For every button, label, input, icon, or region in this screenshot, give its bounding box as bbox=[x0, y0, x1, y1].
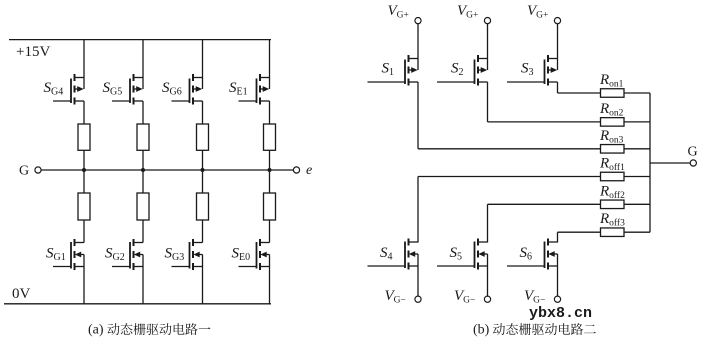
transistor SE0 bbox=[260, 242, 270, 244]
svg-text:S4: S4 bbox=[380, 245, 393, 263]
svg-text:SE1: SE1 bbox=[229, 80, 248, 98]
wire S5 drain bbox=[487, 204, 489, 242]
resistor lower col 3 bbox=[197, 193, 209, 220]
svg-text:e: e bbox=[306, 163, 312, 178]
svg-text:G: G bbox=[688, 145, 698, 160]
svg-text:Roff1: Roff1 bbox=[599, 156, 625, 174]
svg-text:SG6: SG6 bbox=[162, 80, 182, 98]
resistor upper col 3 bbox=[197, 124, 209, 150]
wire S4 drain bbox=[417, 177, 419, 243]
wire G line bbox=[41, 169, 293, 171]
svg-text:VG−: VG− bbox=[524, 288, 545, 306]
transistor SG6 bbox=[193, 77, 203, 79]
wire resistor to G-line col 1 bbox=[83, 150, 85, 193]
wire Roff1 to bus bbox=[624, 176, 650, 178]
node junction col 2 bbox=[141, 168, 145, 172]
terminal VG+ 1 bbox=[415, 18, 421, 24]
wire bus to G bbox=[650, 162, 690, 164]
terminal G bbox=[35, 167, 41, 173]
wire Roff2 to bus bbox=[624, 203, 650, 205]
wire source to resistor col 2 bbox=[142, 101, 144, 124]
wire Ron3 to bus bbox=[624, 148, 650, 150]
wire resistor to G-line col 2 bbox=[142, 150, 144, 193]
wire S5 source bbox=[487, 254, 489, 296]
transistor S3 bbox=[548, 58, 558, 60]
svg-text:Ron1: Ron1 bbox=[599, 72, 624, 90]
wire drain column 3 top bbox=[202, 40, 204, 89]
resistor Roff1 bbox=[601, 172, 625, 181]
wire S3 source bbox=[557, 82, 559, 93]
wire resistor to drain col 2 bbox=[142, 220, 144, 243]
transistor SE1 bbox=[260, 77, 270, 79]
svg-text:(a): (a) bbox=[88, 323, 104, 338]
resistor Ron2 bbox=[601, 118, 625, 127]
svg-text:SG2: SG2 bbox=[105, 246, 125, 264]
node junction col 3 bbox=[201, 168, 205, 172]
terminal e bbox=[293, 167, 299, 173]
wire VG+ to S1 bbox=[417, 24, 419, 70]
wire S4 source bbox=[417, 254, 419, 296]
wire resistor to G-line col 3 bbox=[202, 150, 204, 193]
transistor SG5 bbox=[134, 77, 144, 79]
wire source to resistor col 3 bbox=[202, 101, 204, 124]
svg-text:Roff2: Roff2 bbox=[599, 183, 625, 201]
svg-text:(b): (b) bbox=[473, 323, 490, 338]
wire Roff3 to bus bbox=[624, 231, 650, 233]
resistor Roff3 bbox=[601, 228, 625, 237]
wire drain column 2 top bbox=[142, 40, 144, 89]
wire S2 source bbox=[487, 82, 489, 122]
resistor Ron1 bbox=[601, 89, 625, 98]
svg-text:VG+: VG+ bbox=[457, 3, 478, 21]
transistor SG1 bbox=[75, 242, 85, 244]
wire resistor to drain col 3 bbox=[202, 220, 204, 243]
resistor lower col 2 bbox=[137, 193, 149, 220]
resistor Ron3 bbox=[601, 145, 625, 154]
wire +15V rail bbox=[9, 39, 271, 41]
svg-text:S5: S5 bbox=[450, 245, 463, 263]
wire Ron1 to bus bbox=[624, 92, 650, 94]
node junction col 1 bbox=[82, 168, 86, 172]
node junction col 4 bbox=[268, 168, 272, 172]
transistor S5 bbox=[478, 241, 488, 243]
svg-text:SG5: SG5 bbox=[103, 80, 123, 98]
svg-text:SG4: SG4 bbox=[44, 80, 64, 98]
svg-text:SG1: SG1 bbox=[46, 246, 66, 264]
svg-text:G: G bbox=[19, 164, 29, 179]
svg-text:Roff3: Roff3 bbox=[599, 211, 625, 229]
wire source to 0V col 1 bbox=[83, 255, 85, 305]
transistor S6 bbox=[548, 241, 558, 243]
transistor SG3 bbox=[193, 242, 203, 244]
resistor upper col 2 bbox=[137, 124, 149, 150]
terminal VG+ 2 bbox=[484, 18, 490, 24]
svg-text:+15V: +15V bbox=[16, 44, 50, 60]
resistor lower col 4 bbox=[264, 193, 276, 220]
wire S1 source bbox=[417, 82, 419, 149]
terminal VG- 1 bbox=[415, 296, 421, 302]
svg-text:ybx8.cn: ybx8.cn bbox=[529, 305, 592, 322]
wire VG+ to S3 bbox=[557, 24, 559, 70]
wire drain column 4 top bbox=[269, 40, 271, 89]
terminal VG+ 3 bbox=[554, 18, 560, 24]
svg-text:Ron2: Ron2 bbox=[599, 101, 624, 119]
transistor S2 bbox=[478, 58, 488, 60]
wire resistor to drain col 1 bbox=[83, 220, 85, 243]
resistor upper col 4 bbox=[264, 124, 276, 150]
resistor lower col 1 bbox=[78, 193, 90, 220]
svg-text:SE0: SE0 bbox=[232, 246, 251, 264]
wire source to 0V col 3 bbox=[202, 255, 204, 305]
terminal VG- 2 bbox=[484, 296, 490, 302]
wire 0V rail bbox=[4, 303, 271, 305]
wire S6 source bbox=[557, 254, 559, 296]
svg-text:S2: S2 bbox=[451, 61, 464, 79]
svg-text:0V: 0V bbox=[12, 286, 31, 302]
resistor Roff2 bbox=[601, 200, 625, 209]
terminal VG- 3 bbox=[554, 296, 560, 302]
terminal G out bbox=[690, 160, 696, 166]
wire source to 0V col 2 bbox=[142, 255, 144, 305]
transistor S4 bbox=[409, 241, 419, 243]
wire resistor to drain col 4 bbox=[269, 220, 271, 243]
wire right bus bbox=[649, 93, 651, 232]
resistor upper col 1 bbox=[78, 124, 90, 150]
svg-text:VG+: VG+ bbox=[527, 3, 548, 21]
wire source to resistor col 1 bbox=[83, 101, 85, 124]
svg-text:VG−: VG− bbox=[385, 288, 406, 306]
wire drain column 1 top bbox=[83, 40, 85, 89]
svg-text:VG+: VG+ bbox=[388, 3, 409, 21]
svg-text:S1: S1 bbox=[382, 61, 395, 79]
svg-text:SG3: SG3 bbox=[165, 246, 185, 264]
svg-text:VG−: VG− bbox=[454, 288, 475, 306]
transistor S1 bbox=[409, 58, 419, 60]
wire S6 drain bbox=[557, 232, 559, 242]
wire source to resistor col 4 bbox=[269, 101, 271, 124]
transistor SG2 bbox=[134, 242, 144, 244]
transistor SG4 bbox=[75, 77, 85, 79]
svg-text:Ron3: Ron3 bbox=[599, 128, 624, 146]
wire Ron2 to bus bbox=[624, 121, 650, 123]
wire VG+ to S2 bbox=[487, 24, 489, 70]
svg-text:S3: S3 bbox=[521, 61, 534, 79]
svg-text:S6: S6 bbox=[520, 245, 533, 263]
wire resistor to G-line col 4 bbox=[269, 150, 271, 193]
wire source to 0V col 4 bbox=[269, 255, 271, 305]
